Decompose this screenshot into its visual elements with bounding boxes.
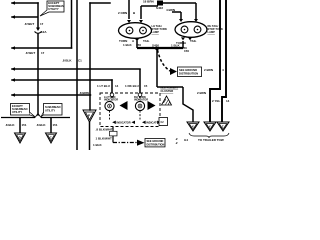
svg-text:UTILITY: UTILITY [45,108,55,112]
svg-text:UTILITY: UTILITY [12,110,22,114]
label INSTRUMENT CLUSTER [161,86,179,94]
SEE GROUND DISTRIBUTION box 1 [178,67,202,77]
LH TAIL/STOP-TURN LAMP bulb [119,20,152,42]
wire DK BLU drop x140 [139,69,141,93]
svg-text:Y: Y [209,125,211,129]
off-page arrow A5 [11,78,15,82]
svg-text:150: 150 [184,49,189,53]
svg-text:S402: S402 [156,6,163,10]
svg-text:1 BLK: 1 BLK [123,43,133,47]
svg-text:.2: .2 [175,141,178,145]
svg-text:151: 151 [53,123,58,127]
svg-text:F: F [88,114,90,118]
wire W1 top-left horizontal [12,2,38,4]
indicator arrow row LH [112,121,116,124]
wire V x220 [210,0,220,122]
svg-text:.8 BLK: .8 BLK [5,123,15,127]
svg-text:CLUSTER: CLUSTER [161,89,174,93]
svg-text:12A: 12A [41,30,47,34]
ground triangle Y [204,122,216,131]
labels LH TURN INDICATOR [104,95,148,102]
svg-text:2 BRN: 2 BRN [204,68,213,72]
svg-text:1 BLK: 1 BLK [171,44,181,48]
svg-text:SUBURBAN: SUBURBAN [45,105,60,109]
svg-text:150: 150 [136,43,141,47]
wire y87 to RH drop [157,86,183,88]
pin marks top [127,20,131,23]
ground triangle X [187,122,199,131]
off-page arrow A2 [11,15,15,19]
svg-text:151: 151 [22,123,27,127]
svg-text:17: 17 [41,51,45,55]
wire to ground C [50,118,52,134]
svg-text:.8 WHT: .8 WHT [25,51,35,55]
cluster pin wire down [112,127,114,143]
svg-text:.8 WHT: .8 WHT [24,22,34,26]
wire pin LH B top [140,6,142,19]
wire pin RH B top [195,3,197,19]
svg-text:.8 BRN: .8 BRN [79,91,89,95]
off-page arrow A1 [11,1,15,5]
wire LH bulb down [137,41,183,48]
pin mark bottom [135,39,139,42]
off-page arrow A4 [11,67,15,71]
svg-text:UTILITY: UTILITY [48,7,59,11]
svg-text:.8 BLK: .8 BLK [62,59,72,63]
splice S402 [157,1,163,6]
svg-text:1 LT BLU: 1 LT BLU [97,84,110,88]
svg-text:INSTRUMENT: INSTRUMENT [161,86,179,90]
svg-text:1 BLK/WHT: 1 BLK/WHT [96,136,112,140]
svg-text:17: 17 [40,22,44,26]
notch [35,114,41,118]
off-page arrow A3 [11,46,15,50]
svg-text:1 BLK: 1 BLK [93,143,103,147]
ground triangle F [83,110,96,122]
ground triangle D [15,133,26,143]
wire corner top x91 [90,2,110,4]
svg-text:.8 BLK/WHT: .8 BLK/WHT [96,128,113,132]
wire V5 vertical x91 to ground F [89,3,91,110]
wires below indicators [110,111,141,120]
LH turn indicator lamp [105,97,114,111]
svg-text:18 BRN: 18 BRN [143,0,154,4]
wire S402 branch [141,5,158,7]
dash-dot wire to ground distribution 2 [113,142,137,144]
wire W4 horizontal y69 [12,68,140,70]
SEE GROUND DISTRIBUTION box 2 [145,139,165,147]
RH turn indicator lamp [135,97,144,111]
svg-text:2 ORN: 2 ORN [118,11,127,15]
ground split shelf [1,117,70,119]
wire V x226 [222,0,226,122]
wire V LT BLU drop x112 [111,80,113,93]
instrument cluster dashed box [100,93,160,127]
inline connector C2A on x38 [35,28,42,34]
svg-text:SEE GROUND: SEE GROUND [179,68,197,72]
svg-text:LAMP: LAMP [208,30,216,34]
wire S402 to RH bulb [163,3,196,19]
svg-text:Z: Z [222,125,224,129]
svg-text:.8 BLK: .8 BLK [36,123,46,127]
svg-text:LAMP: LAMP [152,30,160,34]
right side verticals [210,0,226,122]
RH TAIL/STOP-TURN LAMP bulb [175,19,207,40]
svg-text:S430: S430 [152,44,159,48]
label LH TAIL/STOP-TURN LAMP [152,24,167,34]
wire to ground D [19,118,21,134]
ground triangle Z [217,122,229,131]
callout box EXCEPT SUBURBAN UTILITY (bottom) [11,104,36,117]
wire pin LH A top [128,0,130,19]
svg-text:DISTRIBUTION: DISTRIBUTION [147,144,165,147]
svg-text:TAIL: TAIL [143,39,150,43]
wire V2 vertical x72 [71,0,73,48]
wire W6 horizontal y94 [12,94,91,96]
svg-text:15: 15 [144,84,148,88]
wire W2 horizontal y17 [12,16,37,18]
entry circle LH indicator [110,93,114,97]
svg-text:4 BRN: 4 BRN [166,8,175,12]
svg-text:14: 14 [226,99,230,103]
wire V3 vertical x76 [76,0,78,150]
wire W3 horizontal y48 [12,47,72,49]
pin marks top [179,19,183,22]
LH indicator arrow [120,101,128,110]
svg-text:TAIL: TAIL [190,39,197,43]
svg-text:INDICATOR: INDICATOR [117,120,131,124]
ground triangle C [46,133,57,143]
indicator arrow row RH [142,121,146,124]
connector box on cluster edge [159,118,168,126]
RH indicator arrow [148,101,156,110]
wire W5 horizontal y80 [12,79,112,81]
hazard hatched triangle symbol [162,96,172,105]
svg-text:INDICATOR: INDICATOR [104,97,118,101]
wire thick BLK horizontal y48 [137,47,183,49]
callout box EXCEPT SUBURBAN UTILITY (top) [40,1,64,16]
svg-text:C1: C1 [78,59,82,63]
wire below ground F [89,122,91,150]
pin marks bottom [181,37,185,40]
svg-text:2 YEL: 2 YEL [212,99,220,103]
svg-text:INDICATOR: INDICATOR [134,97,148,101]
off-page arrow A6 [11,93,15,97]
wire V1 vertical x38 [37,3,39,27]
splice S430 [155,47,159,51]
entry circle RH indicator [138,93,142,97]
inline connector on pin wire [110,131,118,136]
arrow into see-ground box 2 [137,140,145,146]
wire pin RH A top [180,12,182,19]
dashed lead to ground distribution [158,50,171,71]
wire S430 down [157,48,193,122]
svg-text:G4: G4 [184,138,188,142]
svg-text:X: X [192,125,194,129]
wire RH drop to ground X [183,87,193,122]
LH bulb connector verticals [129,0,158,19]
svg-text:TO TRAILER TOW: TO TRAILER TOW [198,138,224,142]
wire RH bulb pin down [182,41,184,48]
arrow into see-ground box [170,68,177,75]
brace under grounds [189,133,229,138]
svg-text:14: 14 [115,84,119,88]
callout box SUBURBAN UTILITY (bottom) [41,104,62,117]
label RH TAIL/STOP-TURN LAMP [208,24,223,34]
svg-text:DISTRIBUTION: DISTRIBUTION [179,72,198,76]
svg-text:2 BRN: 2 BRN [197,91,206,95]
svg-text:1 DK BLU: 1 DK BLU [125,84,139,88]
